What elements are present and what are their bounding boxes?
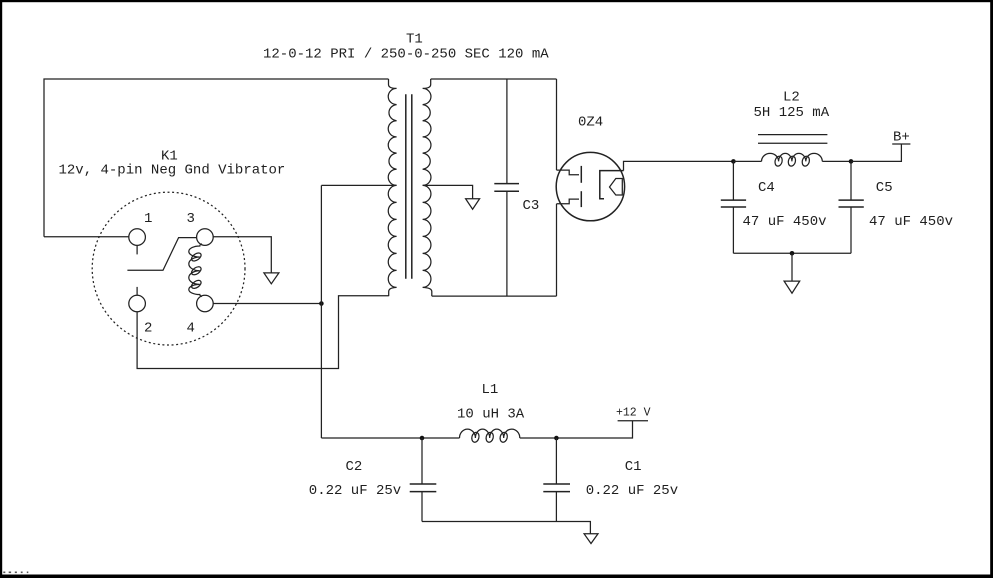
inductor L1 coil — [460, 429, 520, 443]
pin label 2 — [144, 320, 152, 336]
svg-text:1: 1 — [144, 211, 152, 227]
capacitor C2 plates — [410, 484, 437, 492]
label C1 value — [586, 483, 678, 499]
capacitor C5 bottom lead — [850, 207, 852, 253]
+12V terminal bar — [618, 420, 648, 422]
capacitor C4 plates — [721, 200, 746, 207]
pin label 4 — [187, 320, 195, 336]
svg-text:C2: C2 — [346, 459, 363, 475]
wire secondary top — [431, 78, 557, 80]
ground at pin3 — [264, 273, 279, 284]
capacitor C1 top lead — [555, 438, 557, 484]
capacitor C5 top lead — [850, 161, 852, 200]
pin 1 circle — [129, 229, 146, 246]
label C2 value — [309, 483, 401, 499]
rectifier tube 0Z4 envelope — [556, 152, 624, 220]
label K1 — [161, 149, 178, 165]
label C5 — [876, 180, 893, 196]
pin 4 circle — [197, 295, 214, 312]
svg-text:B+: B+ — [893, 130, 910, 146]
svg-text:2: 2 — [144, 320, 152, 336]
transformer T1 secondary winding — [423, 79, 432, 296]
wire pin2 to primary bottom — [137, 296, 389, 369]
tube anode 2 plate — [580, 191, 582, 207]
wire secondary center tap — [423, 185, 473, 198]
capacitor C4 top lead — [732, 161, 734, 200]
scan specks bottom left — [3, 572, 28, 574]
wire C4 C5 bottom rail — [733, 252, 851, 254]
svg-text:4: 4 — [187, 320, 195, 336]
tube cathode arrow — [610, 179, 623, 196]
wire pin3 to ground — [213, 237, 271, 273]
capacitor C1 plates — [543, 484, 570, 492]
svg-text:47 uF 450v: 47 uF 450v — [869, 214, 953, 230]
wire to filter ground — [791, 253, 793, 281]
capacitor C3 plates — [494, 184, 519, 192]
wire pin4 to node — [213, 303, 321, 305]
wire 12V rail right — [520, 421, 633, 438]
svg-text:L2: L2 — [783, 90, 800, 106]
inductor L2 core lines — [758, 135, 827, 144]
svg-text:12-0-12 PRI / 250-0-250 SEC 12: 12-0-12 PRI / 250-0-250 SEC 120 mA — [263, 47, 549, 63]
wire tube output — [624, 161, 734, 170]
B+ terminal bar — [892, 143, 910, 145]
pin 2 circle — [129, 295, 146, 312]
tube cathode bracket — [600, 171, 624, 199]
capacitor C2 bottom lead — [421, 492, 423, 522]
junction filter ground — [790, 251, 795, 256]
pin 3 circle — [197, 229, 214, 246]
wire pin1 horizontal — [44, 236, 129, 238]
svg-text:C3: C3 — [523, 198, 540, 214]
svg-text:47 uF 450v: 47 uF 450v — [743, 214, 827, 230]
label C5 value — [869, 214, 953, 230]
wire to B+ terminal — [851, 144, 901, 161]
junction pin4 / center tap — [319, 301, 324, 306]
svg-text:0.22 uF 25v: 0.22 uF 25v — [586, 483, 678, 499]
junction C4 top — [731, 159, 736, 164]
wire node to L2 — [733, 160, 761, 162]
capacitor C3 top lead — [506, 79, 508, 184]
svg-text:C4: C4 — [758, 180, 775, 196]
coil K1 between pin3 and pin4 — [189, 244, 203, 297]
wire 12V rail left — [321, 437, 459, 439]
label C2 — [346, 459, 363, 475]
junction C2 top — [420, 436, 425, 441]
svg-text:12v, 4-pin Neg Gnd Vibrator: 12v, 4-pin Neg Gnd Vibrator — [59, 163, 286, 179]
svg-text:L1: L1 — [482, 382, 499, 398]
svg-text:3: 3 — [187, 211, 195, 227]
label K1 description — [59, 163, 286, 179]
wire C2 C1 bottom rail — [422, 522, 590, 534]
svg-text:0Z4: 0Z4 — [578, 115, 603, 131]
ground bottom — [584, 534, 598, 544]
svg-text:T1: T1 — [406, 32, 423, 48]
junction C1 top — [554, 436, 559, 441]
label L2 value — [754, 105, 830, 121]
tube anode 2 lead — [557, 199, 580, 204]
pin1 contact stub — [136, 245, 138, 254]
wire secondary bottom — [432, 295, 557, 297]
label B+ — [893, 130, 910, 146]
label C4 — [758, 180, 775, 196]
label C3 — [523, 198, 540, 214]
label C4 value — [743, 214, 827, 230]
switch arm — [127, 238, 196, 271]
pin2 contact stub — [136, 287, 138, 295]
wire secondary box right edge upper — [556, 79, 558, 170]
inductor L2 coil — [762, 153, 823, 167]
junction C5 top — [849, 159, 854, 164]
svg-text:C5: C5 — [876, 180, 893, 196]
transformer T1 core — [406, 94, 412, 278]
label +12 V — [616, 406, 651, 419]
svg-text:C1: C1 — [625, 459, 642, 475]
svg-text:0.22 uF 25v: 0.22 uF 25v — [309, 483, 401, 499]
pin label 3 — [187, 211, 195, 227]
ground filter — [784, 281, 800, 293]
tube anode 1 plate — [580, 166, 582, 183]
svg-text:+12 V: +12 V — [616, 406, 651, 419]
tube anode 1 lead — [557, 170, 580, 175]
wire primary center tap horizontal — [321, 184, 396, 186]
ground at secondary center tap — [466, 199, 480, 210]
pin label 1 — [144, 211, 152, 227]
wire L2 to C5 node — [822, 160, 851, 162]
wire secondary box right edge lower — [556, 204, 558, 296]
capacitor C4 bottom lead — [732, 207, 734, 253]
label 0Z4 — [578, 115, 603, 131]
label L1 value — [457, 407, 525, 423]
label L1 — [482, 382, 499, 398]
capacitor C1 bottom lead — [555, 492, 557, 522]
label T1 value — [263, 47, 549, 63]
label L2 — [783, 90, 800, 106]
wire primary center tap vertical — [320, 185, 322, 438]
transformer T1 primary winding — [388, 79, 396, 296]
vibrator K1 dashed envelope circle — [92, 192, 245, 345]
svg-text:10 uH 3A: 10 uH 3A — [457, 407, 525, 423]
label T1 — [406, 32, 423, 48]
wire top loop from pin1 to primary top — [44, 79, 389, 237]
svg-text:5H 125 mA: 5H 125 mA — [754, 105, 830, 121]
capacitor C3 bottom lead — [506, 191, 508, 296]
capacitor C2 top lead — [421, 438, 423, 484]
label C1 — [625, 459, 642, 475]
capacitor C5 plates — [839, 200, 864, 207]
